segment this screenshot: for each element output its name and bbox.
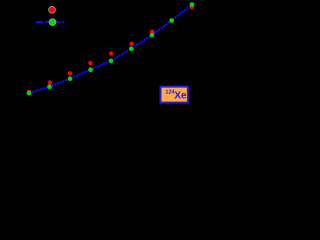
svg-text:Xe: Xe bbox=[174, 91, 187, 102]
